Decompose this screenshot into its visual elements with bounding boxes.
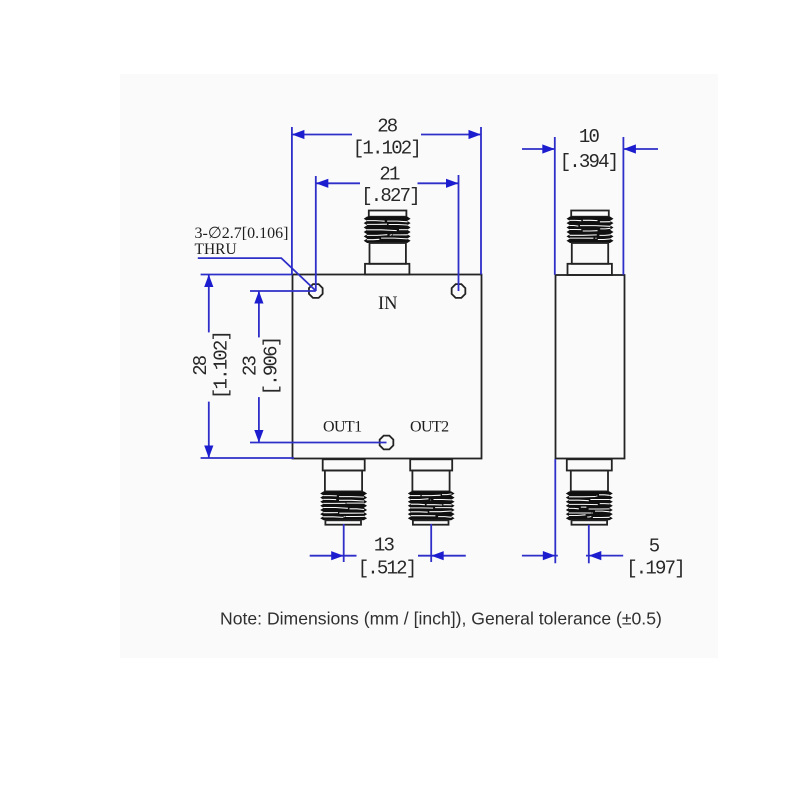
svg-text:[.827]: [.827] [361,185,419,207]
svg-text:3-∅2.7[0.106]: 3-∅2.7[0.106] [195,225,289,242]
body outline (side view) [556,275,625,459]
svg-text:[1.102]: [1.102] [353,138,420,160]
dim 10: extension lines [555,137,624,275]
label IN [378,294,398,314]
dim 5: extension lines [555,459,589,563]
svg-text:Note: Dimensions (mm / [inch]): Note: Dimensions (mm / [inch]), General … [220,609,662,629]
note text [220,609,662,629]
side view bottom connector [566,459,613,524]
dim 10: text [560,126,618,173]
svg-text:21: 21 [379,163,400,185]
side view top connector [567,211,614,276]
svg-text:28: 28 [377,116,398,138]
dim 23: extension lines [250,291,387,443]
dim 5: text [626,536,684,580]
dim 13: extension center lines [344,524,432,562]
svg-text:5: 5 [649,536,660,558]
dim 21: extension lines [316,175,459,291]
dim 13: dimension line with outside arrows [310,551,466,560]
leader line to top-left hole [198,258,315,290]
dim 10: dimension line with outside arrows [522,144,658,153]
svg-text:13: 13 [374,534,395,556]
label OUT1 [323,419,362,436]
svg-text:THRU: THRU [195,241,237,258]
mounting hole top-left [309,284,323,298]
svg-text:28: 28 [190,355,212,376]
dim 13: text [358,534,416,579]
dim 28 top: text [353,116,420,160]
dim 28 left: extension lines [201,275,294,459]
svg-text:OUT2: OUT2 [410,419,449,436]
dim 23: dimension line with inside arrows [254,291,263,443]
svg-text:[.197]: [.197] [626,558,684,580]
OUT2 connector (bottom-right, front view) [408,459,455,524]
IN connector (top, front view) [364,211,411,275]
dim 5: dimension line with outside arrows [522,551,623,560]
label OUT2 [410,419,449,436]
drawing card background [120,74,718,658]
dim 21: text [361,163,419,207]
svg-text:10: 10 [579,126,600,148]
svg-text:[1.102]: [1.102] [211,332,233,399]
dim 28 left: rotated text [190,332,233,399]
dim 21: dimension line with inside arrows [316,179,459,188]
svg-text:IN: IN [378,294,398,314]
svg-text:[.394]: [.394] [560,151,618,173]
OUT1 connector (bottom-left, front view) [320,459,367,524]
svg-text:OUT1: OUT1 [323,419,362,436]
svg-text:23: 23 [239,356,261,377]
svg-text:[.906]: [.906] [260,338,282,396]
dim 28 top: extension lines [292,127,481,275]
dim 28 top: dimension line with inside arrows [292,130,481,139]
svg-text:[.512]: [.512] [358,558,416,580]
dim 28 left: dimension line with inside arrows [204,275,213,459]
dim 23: rotated text [239,338,282,396]
mounting hole top-right [452,284,466,298]
leader note 3-d2.7 THRU: text [195,225,289,258]
body outline (front view) [293,275,482,459]
mounting hole bottom-center [380,436,394,450]
